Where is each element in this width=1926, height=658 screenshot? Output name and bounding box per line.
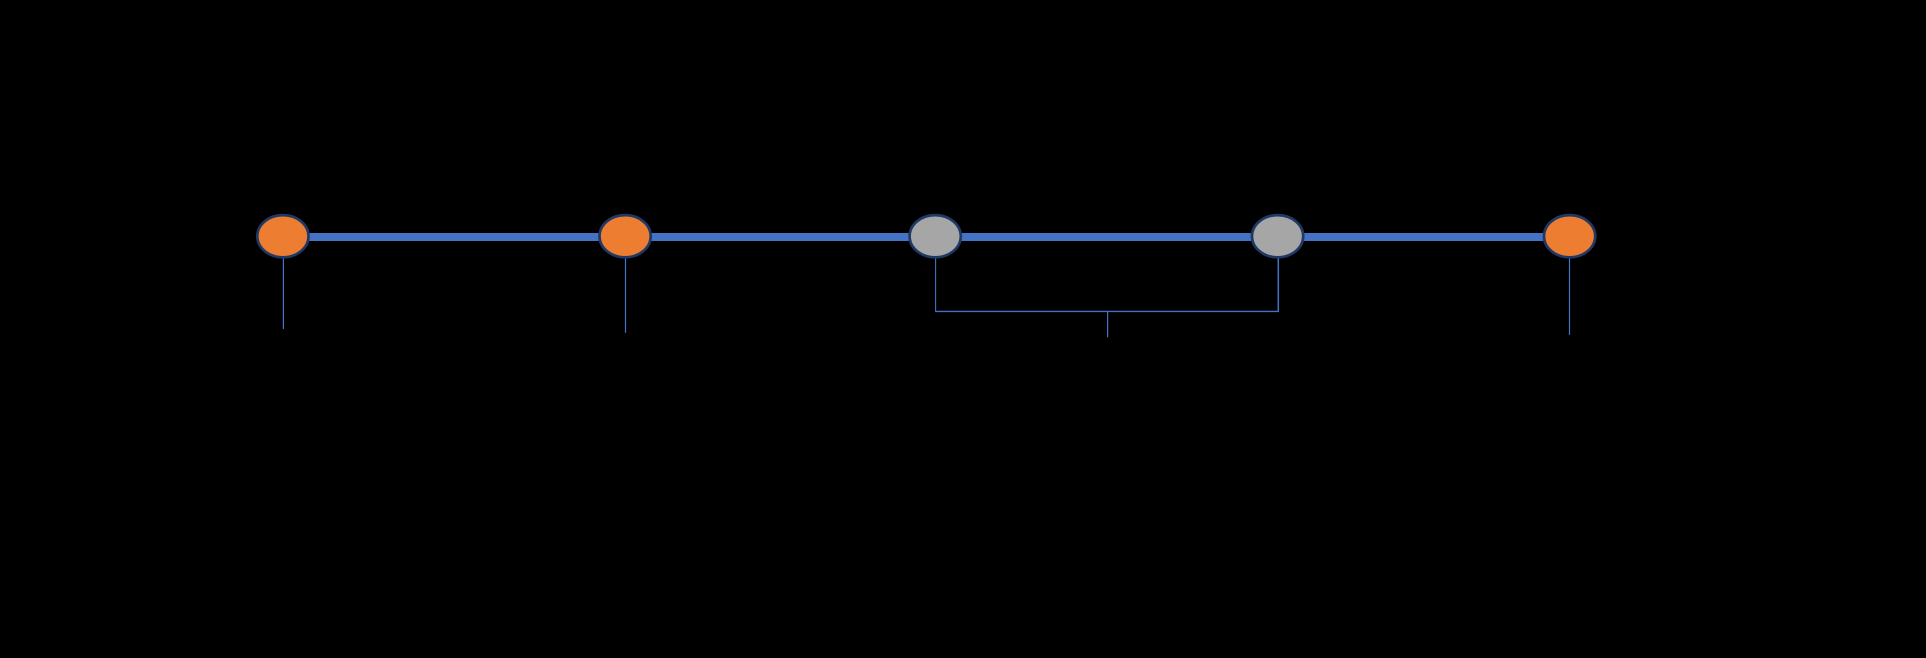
callout line node 1 bbox=[282, 252, 284, 329]
bracket under nodes 3 and 4 bbox=[935, 252, 937, 311]
bracket stem bbox=[1107, 311, 1109, 337]
bracket horizontal bbox=[935, 310, 1279, 312]
node 2 ellipse (orange) bbox=[600, 215, 651, 257]
timeline bar bbox=[283, 233, 1570, 241]
node 4 ellipse (gray) bbox=[1252, 215, 1303, 257]
node 1 ellipse (orange) bbox=[257, 215, 308, 257]
node 3 ellipse (gray) bbox=[910, 215, 961, 257]
callout line node 2 bbox=[625, 252, 627, 333]
callout line node 5 bbox=[1569, 252, 1571, 335]
node 5 ellipse (orange) bbox=[1544, 215, 1595, 257]
bracket right vertical bbox=[1277, 252, 1279, 311]
